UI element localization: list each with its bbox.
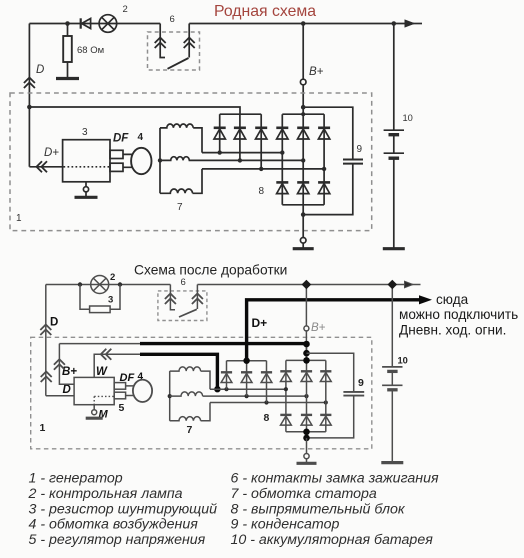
node: junction of rail and resistor branch [65, 21, 70, 26]
shunt resistor 3 parallel to lamp [80, 285, 120, 313]
rectifier bottom bus [282, 204, 324, 206]
label M [99, 409, 109, 421]
wire: B+ drop from rail [301, 21, 306, 79]
svg-text:8: 8 [259, 186, 265, 197]
aux diode 2 [234, 128, 246, 139]
ignition switch right pin [192, 285, 203, 310]
terminal circle M [92, 410, 97, 415]
aux diode leg 1 [226, 361, 228, 390]
svg-text:1 - генератор: 1 - генератор [29, 471, 123, 487]
voltage regulator box [63, 140, 110, 182]
svg-text:5 - регулятор напряжения: 5 - регулятор напряжения [29, 532, 206, 548]
voltage regulator box 5 [74, 377, 114, 404]
svg-text:10: 10 [398, 356, 408, 366]
legend row 2 [28, 486, 377, 502]
svg-text:4: 4 [138, 132, 144, 143]
svg-text:B+: B+ [309, 66, 324, 78]
svg-text:можно подключить: можно подключить [399, 307, 518, 322]
label 1 (generator) [16, 213, 22, 224]
bridge diode 2 bottom [297, 182, 309, 193]
label 3 (shunt resistor) [108, 295, 113, 306]
label 4 [138, 372, 144, 383]
terminal circle B+ [300, 79, 306, 85]
bridge diode 2 top [301, 371, 312, 381]
bold nodes on B+ column [303, 341, 310, 364]
legend row 4 [29, 517, 340, 533]
aux diode 3 [261, 372, 272, 382]
bridge diode 3 top [318, 128, 330, 139]
wire to ground bar [306, 459, 308, 463]
ground generator minus [293, 247, 314, 250]
legend row 5 [29, 532, 434, 548]
label 1 [40, 422, 46, 434]
phase wire 2 to bridge [189, 158, 306, 162]
wire: to ground bar [85, 192, 87, 197]
wire: B+ sense line thin part [59, 343, 141, 345]
label 9 [358, 377, 364, 389]
bridge column 2 [302, 114, 304, 205]
wire: top rail left part [46, 284, 171, 286]
svg-text:Родная схема: Родная схема [214, 3, 316, 20]
svg-text:3: 3 [82, 127, 88, 138]
stator star vertical [168, 371, 172, 421]
aux diode 2 [241, 372, 252, 382]
node diamond: B+ rail junction [302, 280, 312, 290]
svg-text:7: 7 [187, 424, 193, 436]
label 8 rectifier [259, 186, 265, 197]
bridge diode 3 top [320, 371, 331, 381]
svg-text:DF: DF [113, 133, 129, 145]
label 8 [264, 412, 270, 424]
wire: D drop from rail with chevrons [40, 285, 51, 396]
svg-text:6: 6 [181, 277, 186, 288]
annotation: daytime running lights [399, 292, 518, 338]
aux diode 1 [214, 128, 226, 139]
internal dotted link to M [94, 396, 114, 404]
svg-text:B+: B+ [62, 366, 77, 378]
svg-text:D+: D+ [252, 316, 268, 330]
ignition switch blade (open) [168, 58, 189, 69]
stator coil bottom [170, 403, 210, 421]
svg-text:10: 10 [403, 113, 413, 123]
wire: top rail right part with arrow [197, 281, 420, 288]
ignition switch left pin with connector chevrons [155, 24, 166, 58]
ignition switch right pin with connector chevrons [184, 24, 195, 58]
svg-text:B+: B+ [311, 322, 326, 334]
svg-text:5: 5 [119, 402, 125, 414]
ground battery [383, 247, 405, 250]
regulator output pin upper [110, 150, 123, 158]
label 9 capacitor [357, 144, 363, 155]
label DF [113, 133, 129, 145]
ground under regulator M [86, 417, 103, 420]
label DF [120, 372, 135, 384]
wires: pins to field winding [123, 154, 132, 167]
wire: minus lead to ground [306, 438, 308, 454]
capacitor 9 loop top [307, 353, 354, 391]
aux diode 1 [221, 372, 232, 382]
bold nodes on minus column [303, 429, 310, 442]
title: Родная схема [214, 3, 316, 20]
wire: B+ into rectifier [305, 331, 307, 361]
svg-text:9: 9 [357, 144, 363, 155]
label 7 [187, 424, 193, 436]
svg-text:D: D [50, 317, 58, 329]
svg-text:DF: DF [120, 372, 135, 384]
svg-text:Дневн. ход. огни.: Дневн. ход. огни. [399, 323, 506, 338]
wire: battery positive lead [391, 285, 393, 367]
generator dashed box 1 [31, 337, 372, 449]
stator phase coil middle [160, 157, 189, 161]
phase wire 1 [210, 387, 286, 391]
regulator output pin lower [110, 163, 123, 171]
bridge column 1 [284, 360, 288, 431]
diode on lamp feed (points left) [81, 18, 91, 28]
generator dashed box 1 [10, 93, 372, 231]
rectifier bottom bus [286, 431, 326, 433]
wire: rectifier minus lead [301, 205, 306, 217]
svg-text:сюда: сюда [436, 292, 469, 307]
svg-text:68 Ом: 68 Ом [77, 45, 104, 56]
label D regulator pin [63, 384, 71, 396]
ignition switch left pin [165, 285, 176, 310]
aux diode leg 2 [246, 361, 248, 396]
node: D+ on trio bus [243, 358, 249, 364]
arrowhead of D+ wire [413, 295, 432, 304]
wire: lead resistor to rail [67, 24, 69, 37]
bridge diode 3 bottom [320, 415, 331, 425]
svg-text:1: 1 [16, 213, 22, 224]
bridge column 1 [280, 114, 284, 205]
stator phase coil top [160, 124, 202, 153]
bridge column 3 [325, 360, 327, 431]
wire: resistor to ground [67, 62, 69, 78]
label 2 (lamp) [110, 272, 115, 283]
wire: battery negative lead [393, 159, 395, 248]
capacitor 9 bottom lead [303, 165, 353, 215]
regulator pin lower [114, 392, 125, 399]
wire: regulator D+ lead with chevrons [29, 161, 62, 172]
label 10 battery [403, 113, 413, 123]
wire: regulator B+ lead with chevrons [54, 344, 74, 385]
label 3 above regulator [82, 127, 88, 138]
svg-text:Схема после доработки: Схема после доработки [134, 263, 287, 278]
label D [50, 317, 58, 329]
node: lamp branch right [118, 282, 122, 286]
svg-text:2: 2 [110, 272, 115, 283]
label 7 stator winding [177, 202, 183, 213]
wires: pins to field winding [126, 386, 134, 396]
svg-text:7: 7 [177, 202, 183, 213]
stator phase coil bottom [160, 169, 202, 193]
node: W tap on phase 1 [214, 386, 220, 392]
connector box 6 dashed outline [158, 291, 207, 321]
wire: generator case to ground [302, 215, 304, 238]
ground generator minus [297, 462, 317, 465]
svg-text:2: 2 [123, 4, 128, 15]
label 2 (lamp) [123, 4, 128, 15]
svg-text:4 - обмотка возбуждения: 4 - обмотка возбуждения [29, 517, 199, 533]
aux diode 3 [255, 128, 267, 139]
title: Схема после доработки [134, 263, 287, 278]
node: D+ bus junction on left vertical [27, 105, 32, 110]
bold added wire: D+ output to daytime lights [247, 300, 413, 361]
wire: B+ drop from rail [305, 285, 307, 326]
field winding 4 [133, 380, 152, 402]
label D terminal [36, 64, 44, 76]
wire: battery negative lead [391, 390, 393, 462]
phase wire 2 [203, 394, 309, 398]
connector box 6: ignition switch dashed outline [148, 32, 200, 70]
svg-text:2 - контрольная лампа: 2 - контрольная лампа [28, 486, 183, 502]
label 5 [119, 402, 125, 414]
label B+ terminal [311, 322, 326, 334]
label B+ regulator pin [62, 366, 77, 378]
internal dotted shunt path [64, 166, 110, 168]
wire: left vertical drop from rail (terminal D) [28, 24, 30, 167]
label 6 [181, 277, 186, 288]
label D+ regulator input [44, 147, 59, 159]
ignition switch blade [179, 309, 197, 317]
svg-text:D+: D+ [44, 147, 59, 159]
connector chevrons on D line [24, 78, 35, 89]
wire: M ground lead [93, 405, 95, 410]
auxiliary diode trio top bus [220, 113, 262, 115]
bridge column 3 [323, 114, 325, 205]
terminal circle minus [304, 454, 309, 459]
battery 10 (two cells) [382, 367, 402, 390]
svg-text:W: W [96, 366, 108, 378]
rectifier top bus [282, 113, 324, 115]
phase wire 3 [210, 400, 328, 404]
bridge diode 2 top [297, 128, 309, 139]
stator coil middle [170, 392, 203, 396]
svg-text:9 - конденсатор: 9 - конденсатор [231, 517, 340, 533]
wire: regulator ground lead [85, 182, 87, 187]
control lamp 2 [91, 276, 109, 294]
label 10 [398, 356, 408, 366]
bridge diode 1 top [276, 128, 288, 139]
wire: D lead into regulator [46, 395, 74, 397]
label D+ [252, 316, 268, 330]
aux diode leg 3 [266, 361, 268, 403]
wire: battery positive lead [392, 21, 397, 130]
svg-text:3: 3 [108, 295, 113, 306]
svg-text:D: D [63, 384, 71, 396]
label 4 (field winding) [138, 132, 144, 143]
bridge diode 1 bottom [280, 415, 291, 425]
bridge diode 1 top [280, 371, 291, 381]
svg-text:8 - выпрямительный блок: 8 - выпрямительный блок [231, 501, 406, 517]
svg-text:1: 1 [40, 422, 46, 434]
ground battery [381, 461, 403, 464]
svg-text:10 - аккумуляторная батарея: 10 - аккумуляторная батарея [231, 532, 434, 548]
wire: top supply rail left part [29, 23, 160, 25]
phase wire 1 to bridge [202, 150, 282, 154]
ground under resistor [56, 77, 79, 80]
control lamp 2 [99, 15, 117, 33]
regulator pin upper [114, 383, 125, 390]
svg-text:7 - обмотка статора: 7 - обмотка статора [231, 486, 377, 502]
svg-text:3 - резистор шунтирующий: 3 - резистор шунтирующий [29, 501, 218, 517]
svg-text:8: 8 [264, 412, 270, 424]
svg-text:6: 6 [170, 14, 175, 25]
label 6 (ignition contacts) [170, 14, 175, 25]
wire: D+ bus to auxiliary diode trio [29, 107, 240, 114]
wire: W lead with chevrons [94, 349, 141, 378]
phase wire 3 to bridge [202, 167, 326, 171]
label B+ terminal [309, 66, 324, 78]
value label 68 Ом [77, 45, 104, 56]
wire: top supply rail right part with arrow [189, 20, 422, 27]
stator coil top [170, 367, 210, 389]
wire: to ground bar [302, 243, 304, 248]
wire: B+ into rectifier [301, 85, 306, 116]
svg-text:D: D [36, 64, 44, 76]
svg-text:6 - контакты замка зажигания: 6 - контакты замка зажигания [231, 471, 439, 487]
terminal circle generator minus [300, 238, 306, 244]
node: lamp branch left [78, 282, 82, 286]
capacitor 9 loop bottom [307, 396, 354, 438]
bridge column 2 [306, 344, 308, 432]
bridge diode 1 bottom [276, 182, 288, 193]
resistor 68 Ohm [63, 36, 72, 62]
aux diode leg 2 [239, 114, 241, 160]
terminal circle B+ [304, 326, 309, 331]
rectifier top bus [286, 359, 326, 361]
field winding 4 (rotor) [131, 148, 151, 174]
bold added wire: B+ sense to battery node [140, 342, 307, 345]
aux diode trio top bus [227, 360, 267, 362]
terminal circle regulator ground [83, 187, 88, 192]
bridge diode 3 bottom [318, 182, 330, 193]
aux diode leg 3 [260, 114, 262, 169]
ground under regulator [75, 196, 98, 199]
capacitor 9 plates [343, 392, 364, 396]
battery 10 (two cells) [384, 130, 404, 158]
capacitor 9 top lead [303, 107, 353, 159]
svg-text:9: 9 [358, 377, 364, 389]
legend row 3 [29, 501, 406, 517]
legend row 1 [29, 471, 439, 487]
stator star point vertical [158, 128, 162, 193]
bridge diode 2 bottom [301, 415, 312, 425]
aux diode leg 1 [219, 114, 221, 152]
bold added wire: W to stator phase [140, 354, 217, 389]
label W regulator pin [96, 366, 108, 378]
node diamond: battery rail junction [387, 280, 397, 290]
capacitor 9 plates [343, 160, 363, 164]
